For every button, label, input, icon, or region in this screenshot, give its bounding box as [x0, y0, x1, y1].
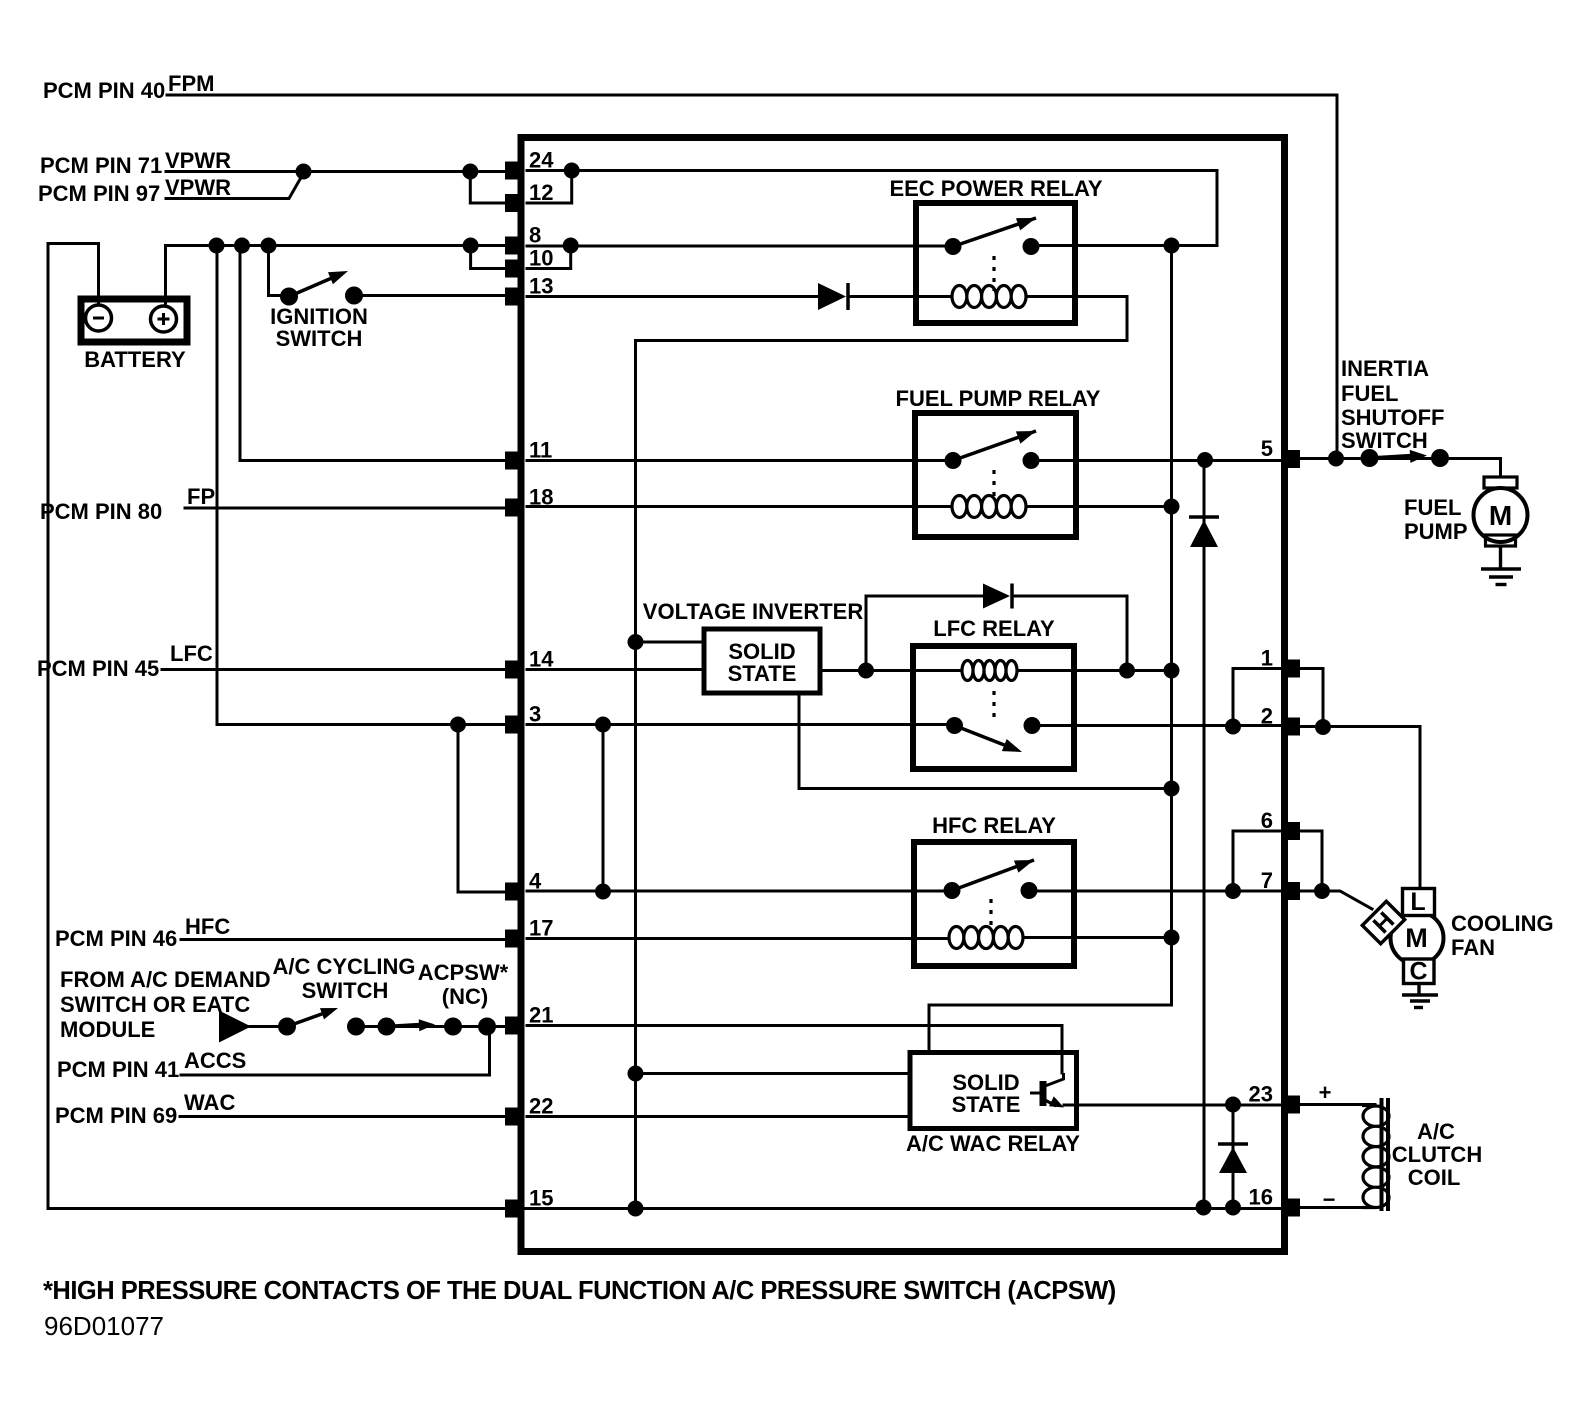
diode D4 clamp on pin 23 line [1218, 1142, 1248, 1146]
relay U1 EEC power relay coil [952, 285, 1026, 307]
svg-text:A/C WAC RELAY: A/C WAC RELAY [906, 1131, 1080, 1156]
svg-text:MODULE: MODULE [60, 1017, 155, 1042]
node battery feed A [209, 238, 225, 254]
svg-text:C: C [1409, 958, 1427, 986]
svg-text:FAN: FAN [1451, 935, 1495, 960]
svg-text:A/C: A/C [1417, 1119, 1455, 1144]
wire pin 5 to inertia switch and fuel pump [1300, 459, 1501, 478]
svg-text:PCM PIN 46: PCM PIN 46 [55, 926, 177, 951]
svg-text:WAC: WAC [184, 1090, 235, 1115]
wire cycling switch to ACPSW to pin 21 [356, 1025, 506, 1028]
node pin2 bracket R [1315, 719, 1331, 735]
motor M1 fuel pump [1474, 477, 1528, 546]
wire battery positive feed rail to pin 8 [166, 246, 507, 304]
wire voltage inverter top input [636, 641, 705, 644]
node pin4 branch B [595, 884, 611, 900]
node LFC coil VPWR junction [1164, 663, 1180, 679]
wire pin 17 to HFC relay coil [527, 938, 1172, 939]
relay U4 HFC relay contacts and armature [944, 882, 1038, 899]
wire A/C demand to cycling switch [250, 1025, 287, 1028]
node FP coil VPWR junction [1164, 499, 1180, 515]
relay U2 fuel pump relay dotted actuator line [992, 470, 995, 503]
wire pin 18 to FP relay coil [527, 505, 1172, 508]
battery positive terminal [151, 306, 177, 332]
ground below cooling fan [1402, 984, 1438, 1008]
svg-text:CLUTCH: CLUTCH [1392, 1142, 1482, 1167]
svg-text:SHUTOFF: SHUTOFF [1341, 405, 1444, 430]
svg-text:2: 2 [1261, 704, 1273, 729]
battery negative terminal [86, 305, 112, 331]
svg-text:(NC): (NC) [442, 984, 488, 1009]
svg-text:18: 18 [529, 485, 553, 510]
node pin23 clamp junction [1225, 1097, 1241, 1113]
diode D3 clamp on pin 5 line [1189, 515, 1219, 519]
svg-text:FROM A/C DEMAND: FROM A/C DEMAND [60, 967, 271, 992]
svg-text:11: 11 [529, 438, 552, 463]
svg-text:14: 14 [529, 647, 554, 672]
svg-text:FUEL: FUEL [1341, 381, 1398, 406]
node pin2 bracket L [1225, 719, 1241, 735]
svg-text:21: 21 [529, 1003, 553, 1028]
relay U3 coil [962, 661, 1017, 681]
svg-text:5: 5 [1261, 436, 1273, 461]
svg-text:ACCS: ACCS [184, 1048, 246, 1073]
svg-text:BATTERY: BATTERY [84, 347, 186, 372]
wire PCM pin 69 WAC to pin 22 [180, 1115, 506, 1118]
svg-text:SWITCH: SWITCH [276, 326, 363, 351]
svg-text:A/C CYCLING: A/C CYCLING [273, 954, 416, 979]
A/C demand input arrow [219, 1011, 251, 1043]
wire voltage inverter bottom output [799, 693, 1172, 789]
svg-text:PCM PIN 45: PCM PIN 45 [37, 656, 159, 681]
wire bracket pin24 to pin12 inside [527, 171, 572, 204]
voltage inverter solid state box [704, 629, 820, 693]
node ACCS junction [478, 1018, 496, 1036]
svg-text:16: 16 [1249, 1185, 1273, 1210]
wire EEC relay output vertical bus to WAC relay [929, 246, 1172, 1051]
relay box EEC power relay [916, 203, 1075, 323]
svg-text:SWITCH OR EATC: SWITCH OR EATC [60, 992, 250, 1017]
node ground line A [628, 1201, 644, 1217]
wire pin3 to pin4 link A [458, 725, 506, 893]
relay U1 EEC power relay dotted actuator line [992, 256, 995, 291]
ground below fuel pump [1481, 546, 1521, 585]
wire WAC relay output to pin 23 and clutch coil [1064, 1103, 1375, 1107]
svg-text:*HIGH PRESSURE CONTACTS OF THE: *HIGH PRESSURE CONTACTS OF THE DUAL FUNC… [43, 1277, 1116, 1305]
relay U4 HFC relay dotted actuator line [989, 899, 992, 932]
wire VPWR from PCM pin 71 to pin 24 [166, 170, 506, 173]
wire pin 13 to diode and EEC coil [527, 295, 952, 298]
node WAC left tap [628, 1066, 644, 1082]
relay U3 LFC relay contacts and armature [946, 717, 1041, 734]
A/C cycling switch contacts and lever [278, 1018, 365, 1036]
wire clamp diode pin5 to ground line [1203, 461, 1206, 1208]
wire ignition switch to pin 13 [354, 294, 506, 297]
svg-text:M: M [1405, 923, 1428, 953]
node pin3 branch A [450, 717, 466, 733]
svg-text:PCM PIN 71: PCM PIN 71 [40, 153, 162, 178]
svg-text:STATE: STATE [728, 661, 797, 686]
wire PCM pin 45 LFC to pin 14 [162, 668, 506, 671]
node ground line B [1196, 1200, 1212, 1216]
wire EEC relay coil return down the middle [636, 297, 1128, 1209]
transistor Q1 inside A/C WAC relay [1030, 1073, 1064, 1106]
relay box fuel pump relay [915, 413, 1076, 537]
svg-text:PUMP: PUMP [1404, 519, 1468, 544]
svg-text:STATE: STATE [952, 1092, 1021, 1117]
svg-text:COIL: COIL [1408, 1165, 1461, 1190]
wire diode loop over LFC relay coil [866, 596, 1127, 671]
svg-text:1: 1 [1261, 646, 1273, 671]
svg-text:VOLTAGE INVERTER: VOLTAGE INVERTER [643, 599, 864, 624]
svg-text:VPWR: VPWR [165, 148, 231, 173]
svg-text:10: 10 [529, 246, 553, 271]
svg-text:EEC POWER RELAY: EEC POWER RELAY [889, 176, 1102, 201]
PCM connector pin pads left side [505, 162, 522, 1218]
node VPWR bracket [462, 164, 478, 180]
svg-text:96D01077: 96D01077 [44, 1311, 164, 1341]
wire HFC relay output to pin 7 and cooling fan H [1029, 891, 1372, 909]
wire pin 4 to HFC relay contact [527, 890, 952, 893]
wire VPWR from PCM pin 97 [166, 173, 304, 199]
relay box HFC relay [914, 842, 1074, 966]
wire pin3 to pin4 link B [602, 725, 605, 892]
A/C clutch coil windings [1362, 1106, 1389, 1208]
svg-text:ACPSW*: ACPSW* [418, 960, 509, 985]
A/C clutch coil core bars [1382, 1098, 1389, 1211]
diode D1 in series with pin 13 [818, 283, 846, 310]
wire LFC relay output to pin 2 and cooling fan L [1032, 726, 1420, 890]
svg-text:4: 4 [529, 869, 542, 894]
svg-text:23: 23 [1249, 1082, 1273, 1107]
relay U2 fuel pump relay contacts and armature [945, 452, 1040, 469]
svg-text:HFC: HFC [185, 914, 230, 939]
svg-text:HFC RELAY: HFC RELAY [932, 813, 1056, 838]
svg-text:L: L [1410, 888, 1425, 916]
svg-text:7: 7 [1261, 868, 1273, 893]
svg-text:FUEL PUMP RELAY: FUEL PUMP RELAY [896, 386, 1101, 411]
svg-text:6: 6 [1261, 808, 1273, 833]
node pin8 bracket in [563, 238, 579, 254]
A/C WAC relay solid state box [910, 1053, 1077, 1129]
node pin7 bracket R [1314, 883, 1330, 899]
wire PCM pin 46 HFC to pin 17 [181, 938, 506, 941]
node battery feed B [234, 238, 250, 254]
wire voltage inverter output to LFC relay coil [820, 669, 1172, 672]
svg-text:COOLING: COOLING [1451, 911, 1554, 936]
svg-text:PCM PIN 80: PCM PIN 80 [40, 499, 162, 524]
svg-text:PCM PIN 41: PCM PIN 41 [57, 1057, 179, 1082]
node LFC coil out A [858, 663, 874, 679]
PCM connector main box [521, 138, 1285, 1252]
PCM connector pin pads right side [1283, 450, 1300, 1217]
wire feed to ignition switch [269, 246, 284, 296]
ACPSW high pressure switch contacts and lever [378, 1018, 463, 1036]
wire bracket pin1 to pin2 left [1233, 669, 1283, 727]
svg-text:SWITCH: SWITCH [1341, 428, 1428, 453]
node voltage inverter tap [628, 634, 644, 650]
wire fuel pump relay to pin 5 [1031, 459, 1283, 462]
node pin5 clamp junction [1197, 452, 1213, 468]
svg-text:INERTIA: INERTIA [1341, 356, 1429, 381]
svg-text:15: 15 [529, 1186, 553, 1211]
wire battery feed to pin 11 [240, 246, 506, 461]
svg-text:LFC: LFC [170, 641, 213, 666]
wire EEC return into WAC relay left [636, 1072, 911, 1075]
wire pin 8 to EEC relay contact inside [527, 245, 953, 248]
node ground line C [1225, 1200, 1241, 1216]
node inverter bottom junction [1164, 781, 1180, 797]
wire pin 21 into WAC relay transistor [527, 1026, 1062, 1074]
node VPWR 71/97 junction [296, 164, 312, 180]
svg-text:−: − [1323, 1187, 1336, 1212]
node pin3 branch B [595, 717, 611, 733]
relay U4 HFC relay coil [949, 926, 1023, 948]
wire pin 3 to LFC relay contact [527, 723, 954, 726]
diode D2 across LFC relay coil [983, 584, 1010, 609]
wire bracket pin1 to pin2 right [1300, 669, 1323, 728]
wire pin 15 to pin 16 ground line [522, 1208, 1375, 1209]
wire pin 22 into WAC relay [527, 1115, 910, 1118]
cooling fan H terminal [1362, 901, 1404, 943]
wire battery negative to left ground rail and pin 15 [48, 244, 505, 1209]
wire bracket pin6 to pin7 left [1233, 831, 1283, 891]
motor M2 cooling fan [1391, 912, 1444, 965]
svg-text:24: 24 [529, 148, 554, 173]
wire PCM pin 80 FP to pin 18 [185, 507, 506, 510]
wire battery feed down to pin 3 [217, 246, 506, 725]
wire PCM pin 41 ACCS [181, 1027, 490, 1076]
svg-text:LFC RELAY: LFC RELAY [933, 616, 1055, 641]
svg-text:17: 17 [529, 916, 553, 941]
wire pin 14 to voltage inverter [527, 668, 704, 671]
wire FPM from PCM pin 40 [167, 95, 1337, 459]
ignition switch contacts and lever [280, 287, 363, 306]
svg-text:3: 3 [529, 702, 541, 727]
wire bracket pin24 to pin12 outside [470, 172, 506, 204]
node pin7 bracket L [1225, 883, 1241, 899]
node HFC coil VPWR junction [1164, 930, 1180, 946]
wire bracket pin8 to pin10 outside [471, 246, 506, 269]
svg-text:VPWR: VPWR [165, 175, 231, 200]
node FPM junction [1328, 451, 1344, 467]
svg-text:22: 22 [529, 1094, 553, 1119]
inertia fuel shutoff switch contacts and lever [1361, 449, 1450, 467]
wire pin 24 to EEC relay contact [527, 171, 1217, 246]
wire bracket pin6 to pin7 right [1300, 831, 1322, 891]
svg-text:SWITCH: SWITCH [302, 978, 389, 1003]
svg-text:13: 13 [529, 274, 553, 299]
svg-text:M: M [1489, 500, 1512, 531]
relay U2 fuel pump relay coil [952, 495, 1026, 517]
svg-text:PCM PIN 69: PCM PIN 69 [55, 1103, 177, 1128]
relay U3 dotted actuator line [992, 691, 995, 719]
wire bracket pin8 to pin10 inside [527, 246, 571, 269]
wire pin 11 to fuel pump relay contact [527, 459, 953, 462]
svg-text:PCM PIN 97: PCM PIN 97 [38, 181, 160, 206]
relay U1 EEC power relay contacts and armature [945, 238, 1040, 255]
svg-text:FPM: FPM [168, 71, 214, 96]
node pin8 bracket out [463, 238, 479, 254]
wire clamp diode pin23 to pin16 line [1232, 1105, 1235, 1208]
svg-text:FUEL: FUEL [1404, 495, 1461, 520]
node EEC output junction [1164, 238, 1180, 254]
svg-text:PCM PIN 40: PCM PIN 40 [43, 78, 165, 103]
relay box LFC relay [913, 646, 1074, 769]
svg-text:8: 8 [529, 223, 541, 248]
node LFC diode junction [1119, 663, 1135, 679]
svg-text:+: + [1319, 1080, 1332, 1105]
svg-text:FP: FP [187, 484, 215, 509]
svg-text:12: 12 [529, 180, 553, 205]
battery box [81, 299, 187, 342]
node pin24 bracket [564, 163, 580, 179]
node battery feed C [261, 238, 277, 254]
